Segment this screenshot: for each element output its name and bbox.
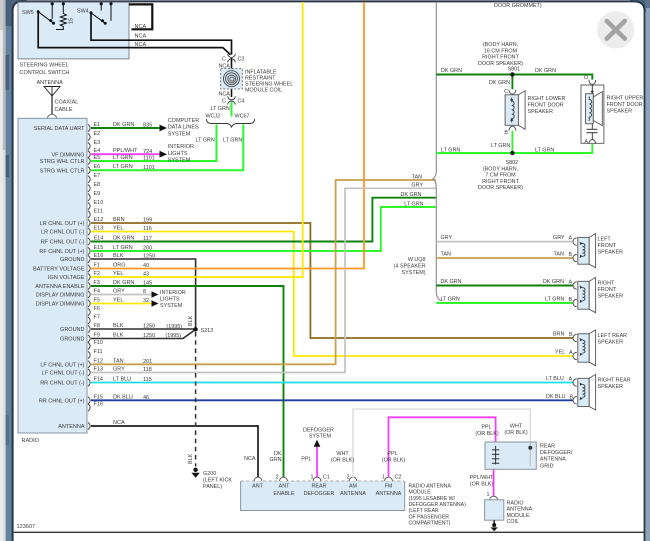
switch SW5: [22, 2, 55, 25]
radio pin E11: [88, 209, 103, 219]
svg-text:S802: S802: [506, 160, 519, 166]
radio pin F8: [60, 323, 155, 333]
svg-text:NCA: NCA: [135, 42, 147, 48]
label coaxial cable: [55, 100, 79, 114]
label YEL A left rear speaker: [555, 350, 573, 356]
svg-text:RIGHT UPPER: RIGHT UPPER: [607, 96, 644, 102]
close button: [597, 11, 634, 48]
wire LT GRN C4 to splice: [211, 102, 232, 117]
right rear speaker: [573, 374, 631, 410]
radio pin E7: [88, 173, 100, 183]
radio pin F3: [35, 280, 152, 290]
svg-text:(BODY HARN,: (BODY HARN,: [483, 42, 519, 48]
wire LT GRN WCJ2 to E5: [91, 125, 217, 162]
svg-text:S213: S213: [201, 328, 214, 334]
connector C3: [222, 54, 244, 63]
radio pin F6: [88, 306, 100, 316]
radio pin F15: [39, 394, 149, 404]
window left scrollbar blue strip: [6, 0, 13, 541]
svg-text:F13: F13: [94, 367, 103, 373]
svg-text:A: A: [569, 377, 573, 383]
svg-text:MODULE COIL: MODULE COIL: [245, 88, 282, 94]
svg-text:SPEAKER: SPEAKER: [598, 384, 624, 390]
svg-text:DK GRN: DK GRN: [543, 279, 564, 285]
svg-text:DK GRN: DK GRN: [401, 192, 422, 198]
svg-text:LT GRN: LT GRN: [491, 143, 510, 149]
left front speaker: [573, 234, 623, 268]
svg-text:STRG WHL CTLR: STRG WHL CTLR: [40, 159, 85, 165]
antenna symbol: [37, 80, 64, 115]
svg-text:(1995): (1995): [165, 333, 181, 339]
label steering wheel control switch: [20, 63, 70, 77]
radio pin E14: [41, 236, 152, 246]
svg-text:INTERIOR: INTERIOR: [160, 290, 186, 296]
radio pin F4: [36, 289, 146, 299]
svg-text:LIGHTS: LIGHTS: [160, 297, 180, 303]
svg-text:DK GRN: DK GRN: [441, 279, 462, 285]
svg-text:ANTENNA: ANTENNA: [340, 491, 366, 497]
svg-text:TAN: TAN: [554, 252, 564, 258]
svg-text:ANTENNA: ANTENNA: [58, 424, 85, 430]
svg-text:ANTENNA: ANTENNA: [37, 80, 64, 86]
svg-text:SYSTEM: SYSTEM: [168, 158, 191, 164]
svg-text:PPL: PPL: [301, 456, 311, 462]
svg-text:DEFOGGER/: DEFOGGER/: [540, 450, 573, 456]
svg-text:TAN: TAN: [412, 174, 422, 180]
wire WHT AM antenna to grid: [331, 409, 530, 478]
svg-text:LT GRN: LT GRN: [441, 297, 460, 303]
svg-text:E7: E7: [94, 173, 101, 179]
svg-text:SPEAKER: SPEAKER: [598, 249, 624, 255]
svg-text:LT BLU: LT BLU: [546, 376, 564, 382]
svg-text:WHT: WHT: [510, 424, 523, 430]
svg-text:SERIAL DATA UART: SERIAL DATA UART: [34, 126, 85, 132]
wire PPL FM antenna to grid: [382, 417, 499, 478]
wire F5 YEL 32 to interior lights: [91, 290, 186, 309]
connector C4: [222, 96, 244, 104]
svg-text:16 CM FROM: 16 CM FROM: [484, 48, 518, 54]
radio pin E3: [88, 140, 100, 150]
svg-text:PPL: PPL: [481, 425, 491, 431]
svg-text:NCA: NCA: [135, 33, 147, 39]
right upper front door speaker: [581, 75, 643, 145]
wire E1 DK GRN 835 to computer data lines: [91, 118, 199, 138]
svg-text:SYSTEM: SYSTEM: [309, 434, 332, 440]
svg-text:BLK: BLK: [113, 253, 124, 259]
svg-text:C: C: [222, 57, 226, 63]
svg-text:LT GRN: LT GRN: [196, 138, 215, 144]
svg-text:B: B: [569, 252, 573, 258]
svg-text:LR CHNL OUT (-): LR CHNL OUT (-): [41, 230, 85, 236]
svg-text:SW5: SW5: [22, 10, 34, 16]
wire F2 YEL 43 to top: [91, 2, 303, 277]
svg-text:LF CHNL OUT (+): LF CHNL OUT (+): [40, 363, 84, 369]
wire NCA C3 to coil: [219, 58, 232, 97]
radio pin E13: [41, 226, 152, 236]
rear defogger antenna grid: [485, 442, 573, 469]
radio pin F14: [40, 377, 152, 387]
svg-text:B: B: [569, 332, 573, 338]
svg-text:F5: F5: [94, 298, 100, 304]
svg-text:STRG WHL CTLR: STRG WHL CTLR: [40, 168, 85, 174]
svg-text:RADIO ANTENNA: RADIO ANTENNA: [409, 483, 452, 489]
svg-text:TAN: TAN: [441, 252, 451, 258]
radio pin E16: [60, 253, 155, 263]
module pin ANT: [252, 477, 263, 489]
radio connector box: [18, 118, 87, 433]
svg-text:PPL/WHT: PPL/WHT: [470, 475, 495, 481]
svg-text:ANT: ANT: [279, 484, 290, 490]
svg-text:LT GRN: LT GRN: [535, 148, 554, 154]
svg-text:CABLE: CABLE: [55, 107, 73, 113]
svg-text:CONTROL SWITCH: CONTROL SWITCH: [20, 70, 70, 76]
svg-text:(1995 LESABRE W/: (1995 LESABRE W/: [409, 496, 456, 502]
radio pin F16: [88, 402, 103, 412]
svg-text:RF CHNL OUT (-): RF CHNL OUT (-): [41, 240, 85, 246]
svg-text:LT GRN: LT GRN: [211, 106, 230, 112]
svg-text:E6: E6: [94, 164, 101, 170]
svg-text:F7: F7: [94, 315, 100, 321]
svg-text:1101: 1101: [143, 165, 155, 171]
svg-text:RADIO: RADIO: [507, 500, 524, 506]
svg-text:COMPUTER: COMPUTER: [168, 118, 200, 124]
svg-text:RIGHT FRONT: RIGHT FRONT: [482, 55, 519, 61]
radio pin F1: [33, 263, 149, 273]
svg-text:STEERING WHEEL: STEERING WHEEL: [20, 63, 69, 69]
svg-text:B: B: [569, 297, 573, 303]
module pin REAR DEFOGGER 1 C1: [304, 474, 335, 497]
svg-text:F11: F11: [94, 349, 103, 355]
svg-text:NCA: NCA: [135, 24, 147, 30]
svg-text:B: B: [504, 130, 508, 136]
svg-text:FRONT: FRONT: [598, 287, 617, 293]
switch SW4: [77, 2, 113, 25]
wire NCA loop top: [129, 4, 152, 30]
svg-text:DEFOGGER: DEFOGGER: [304, 491, 335, 497]
radio pin E12: [40, 217, 152, 227]
resistor 15: [56, 2, 75, 29]
radio pin F10: [88, 340, 103, 350]
wire NCA middle to C3: [91, 13, 232, 55]
svg-text:SYSTEM): SYSTEM): [402, 270, 426, 276]
svg-text:SYSTEM: SYSTEM: [160, 303, 183, 309]
splice S802 label block: [478, 160, 523, 191]
svg-text:(OR BLK): (OR BLK): [470, 481, 494, 487]
label DK GRN at ant enable: [270, 451, 282, 463]
svg-text:F6: F6: [94, 306, 100, 312]
wire LT GRN WC67 to E6: [91, 125, 243, 171]
svg-text:DK GRN: DK GRN: [441, 68, 462, 74]
svg-text:A: A: [584, 139, 588, 145]
svg-text:BLK: BLK: [188, 315, 194, 326]
module pin ANT ENABLE 2: [273, 474, 295, 497]
svg-text:DEFOGGER ANTENNA): DEFOGGER ANTENNA): [409, 502, 467, 508]
wire F8 BLK 1250 to S213: [91, 324, 194, 330]
radio pin E15: [39, 245, 152, 255]
radio pin E6: [40, 164, 155, 174]
svg-text:INTERIOR: INTERIOR: [168, 144, 194, 150]
svg-text:RIGHT REAR: RIGHT REAR: [598, 378, 631, 384]
svg-text:F10: F10: [94, 340, 103, 346]
svg-text:GROUND: GROUND: [60, 337, 84, 343]
svg-text:PPL: PPL: [387, 451, 397, 457]
svg-text:LT GRN: LT GRN: [113, 155, 133, 161]
svg-text:7 CM FROM: 7 CM FROM: [485, 173, 516, 179]
svg-text:F9: F9: [94, 333, 100, 339]
svg-text:BLK: BLK: [188, 453, 194, 464]
wire F1 ORG 40 to top: [91, 2, 364, 269]
svg-text:GRY: GRY: [441, 235, 453, 241]
radio pin E8: [88, 182, 100, 192]
radio pin F9: [60, 333, 155, 343]
svg-text:DISPLAY DIMMING: DISPLAY DIMMING: [36, 302, 85, 308]
wire NCA lower to C3: [38, 12, 230, 55]
svg-text:COAXIAL: COAXIAL: [55, 100, 79, 106]
svg-text:DK: DK: [274, 451, 282, 457]
svg-text:GRY: GRY: [411, 183, 423, 189]
svg-text:LR CHNL OUT (+): LR CHNL OUT (+): [40, 221, 85, 227]
svg-text:ANTENNA: ANTENNA: [540, 457, 566, 463]
radio pin F5: [36, 298, 149, 308]
svg-text:15: 15: [69, 18, 75, 24]
svg-text:E9: E9: [94, 191, 101, 197]
svg-text:SYSTEM: SYSTEM: [168, 131, 191, 137]
svg-text:RIGHT LOWER: RIGHT LOWER: [528, 96, 566, 102]
wire PPL/WHT grid to antenna coil: [470, 469, 495, 498]
svg-text:LT GRN: LT GRN: [441, 148, 460, 154]
svg-text:SPEAKER: SPEAKER: [607, 109, 633, 115]
svg-text:E10: E10: [94, 200, 104, 206]
svg-text:LEFT REAR: LEFT REAR: [598, 333, 628, 339]
svg-text:A: A: [569, 236, 573, 242]
svg-text:1: 1: [311, 474, 314, 480]
radio pin E9: [88, 191, 100, 201]
svg-text:REAR: REAR: [540, 444, 555, 450]
svg-text:(4 SPEAKER: (4 SPEAKER: [394, 264, 426, 270]
svg-text:LT GRN: LT GRN: [113, 164, 133, 170]
svg-text:VF DIMMING: VF DIMMING: [52, 152, 85, 158]
label LT BLU A right rear speaker: [546, 376, 573, 382]
svg-text:G200: G200: [203, 471, 216, 477]
radio pin E4: [52, 148, 153, 158]
radio pin E1: [34, 122, 153, 132]
wire E15 LT GRN 200 to harness: [91, 201, 436, 251]
left rear speaker: [573, 330, 627, 366]
svg-text:DISPLAY DIMMING: DISPLAY DIMMING: [36, 293, 85, 299]
wire ANTENNA NCA to module ANT: [91, 426, 258, 478]
svg-text:DK BLU: DK BLU: [546, 394, 566, 400]
svg-text:C2: C2: [395, 474, 402, 480]
svg-text:F8: F8: [94, 323, 100, 329]
wire E4 PPL/WHT 724 to interior lights: [91, 144, 194, 164]
svg-text:GRN: GRN: [270, 457, 282, 463]
label DK BLU B right rear speaker: [546, 394, 574, 400]
inflatable restraint steering wheel module coil: [221, 69, 243, 90]
svg-text:A: A: [569, 350, 573, 356]
module pin AM ANTENNA 2: [340, 474, 366, 497]
wire GRY to left front speaker A: [436, 235, 573, 241]
wire LT GRN to right front speaker B: [436, 297, 573, 303]
radio pin F12: [40, 358, 152, 368]
svg-text:GRID: GRID: [540, 463, 554, 469]
radio pin E10: [88, 200, 103, 210]
svg-text:REAR: REAR: [312, 484, 327, 490]
svg-text:GRY: GRY: [553, 235, 565, 241]
wire F12 TAN 201 to harness: [91, 174, 436, 364]
wire E16 BLK 1250 to S213: [91, 259, 196, 328]
svg-text:LEFT: LEFT: [598, 236, 612, 242]
wire F9 BLK 1250 to S213: [91, 330, 195, 339]
svg-text:BATTERY VOLTAGE: BATTERY VOLTAGE: [33, 267, 85, 273]
svg-text:1: 1: [382, 474, 385, 480]
svg-text:C3: C3: [238, 57, 245, 63]
harness brace: [433, 2, 442, 301]
svg-text:SPEAKER: SPEAKER: [598, 340, 624, 346]
svg-text:BLK: BLK: [113, 333, 124, 339]
svg-text:2: 2: [276, 474, 279, 480]
svg-text:(1995): (1995): [166, 324, 182, 330]
svg-text:F4: F4: [94, 289, 100, 295]
svg-text:MODULE: MODULE: [507, 513, 530, 519]
wire DK GRN to right front speaker A: [436, 279, 573, 285]
svg-text:E2: E2: [94, 131, 101, 137]
svg-text:DOOR SPEAKER): DOOR SPEAKER): [478, 185, 523, 191]
svg-text:SPEAKER: SPEAKER: [598, 294, 624, 300]
svg-text:LT GRN: LT GRN: [545, 297, 564, 303]
wire F13 GRY 118 to harness: [91, 183, 436, 373]
wire F15 DK BLU 46 to right rear speaker B: [91, 399, 573, 401]
svg-text:GRY: GRY: [113, 367, 125, 373]
svg-text:DK GRN: DK GRN: [489, 80, 510, 86]
svg-text:GRY: GRY: [113, 289, 125, 295]
wire E14 DK GRN 117 to harness: [91, 192, 436, 242]
svg-text:C1: C1: [323, 474, 330, 480]
svg-text:SW4: SW4: [77, 9, 89, 15]
svg-text:W UQ8: W UQ8: [408, 257, 426, 263]
svg-text:SPEAKER: SPEAKER: [528, 109, 554, 115]
wire F4 GRY 8 to interior lights: [91, 291, 159, 297]
svg-text:BRN: BRN: [553, 332, 564, 338]
svg-text:RIGHT FRONT: RIGHT FRONT: [482, 179, 519, 185]
svg-text:GROUND: GROUND: [60, 327, 84, 333]
svg-text:YEL: YEL: [113, 298, 123, 304]
right lower front door speaker: [504, 89, 565, 136]
svg-text:AM: AM: [349, 484, 358, 490]
svg-text:BLK: BLK: [113, 323, 124, 329]
svg-text:NCA: NCA: [244, 456, 256, 462]
window left gutter gray strip: [0, 0, 6, 541]
wire F3 DK GRN 145 to ant enable: [91, 286, 284, 478]
svg-text:F16: F16: [94, 402, 103, 408]
svg-text:1: 1: [487, 492, 490, 498]
svg-text:GROUND: GROUND: [60, 257, 84, 263]
svg-text:RIGHT: RIGHT: [598, 281, 615, 287]
svg-text:FRONT: FRONT: [598, 243, 617, 249]
svg-text:C4: C4: [238, 99, 245, 105]
wire DK GRN S801 to door speakers: [436, 68, 592, 89]
connector WCJ2 WC67 brace: [206, 114, 255, 128]
svg-text:MODULE: MODULE: [409, 490, 432, 496]
svg-text:LIGHTS: LIGHTS: [168, 151, 188, 157]
svg-text:2: 2: [347, 474, 350, 480]
svg-text:E3: E3: [94, 140, 101, 146]
radio pin F13: [42, 367, 152, 377]
label BRN B left rear speaker: [553, 332, 573, 338]
radio antenna module coil box: [485, 496, 533, 525]
svg-text:RR CHNL OUT (+): RR CHNL OUT (+): [39, 399, 85, 405]
svg-text:RADIO: RADIO: [22, 438, 40, 444]
svg-text:ENABLE: ENABLE: [273, 491, 295, 497]
svg-text:123607: 123607: [17, 524, 36, 530]
splice S801 label block: [478, 42, 523, 72]
svg-text:(OR BLK): (OR BLK): [382, 457, 406, 463]
svg-text:DEFOGGER: DEFOGGER: [303, 428, 334, 434]
svg-text:1101: 1101: [143, 156, 155, 162]
svg-text:IGN VOLTAGE: IGN VOLTAGE: [48, 275, 85, 281]
svg-text:COIL: COIL: [507, 519, 520, 525]
ground G200: [191, 468, 232, 490]
radio pin F2: [48, 271, 149, 281]
svg-text:A: A: [569, 280, 573, 286]
radio pin E2: [88, 131, 100, 141]
wire E12 BRN 199 to left rear speaker B: [91, 223, 573, 338]
wire PPL rear defogger to defogger system: [301, 428, 334, 478]
label radio antenna module location: [409, 483, 467, 526]
svg-text:WHT: WHT: [336, 451, 349, 457]
radio pin F11: [88, 349, 103, 359]
wire LT GRN S802 to door speakers: [436, 131, 592, 155]
label inflatable restraint steering wheel module coil: [245, 70, 293, 94]
svg-text:NCA: NCA: [219, 92, 231, 98]
svg-text:DATA LINES: DATA LINES: [168, 125, 199, 131]
wire BLK S213 to G200 dashed: [188, 332, 196, 467]
svg-text:WC67: WC67: [235, 114, 250, 120]
svg-text:OF PASSENGER: OF PASSENGER: [409, 514, 450, 520]
svg-text:(OR BLK): (OR BLK): [475, 431, 499, 437]
wire E13 YEL 116 to left rear speaker A: [91, 232, 573, 357]
svg-text:ANTENNA: ANTENNA: [507, 507, 533, 513]
svg-text:E16: E16: [94, 253, 104, 259]
svg-text:S801: S801: [508, 66, 521, 72]
steering wheel control switch box: [18, 2, 129, 59]
svg-text:ANTENNA ENABLE: ANTENNA ENABLE: [35, 284, 85, 290]
wire F14 LT BLU 115 to right rear speaker A: [91, 382, 573, 384]
splice S213: [188, 315, 213, 334]
svg-text:LT GRN: LT GRN: [223, 138, 242, 144]
svg-text:(LEFT KICK: (LEFT KICK: [203, 477, 232, 483]
svg-text:E5: E5: [94, 155, 101, 161]
svg-text:(OR BLK): (OR BLK): [504, 430, 528, 436]
svg-text:C: C: [222, 99, 226, 105]
svg-text:E8: E8: [94, 182, 101, 188]
svg-text:FRONT DOOR: FRONT DOOR: [607, 102, 643, 108]
svg-text:FM: FM: [385, 484, 393, 490]
svg-text:E11: E11: [94, 209, 103, 215]
svg-text:COMPARTMENT): COMPARTMENT): [409, 521, 451, 527]
svg-text:RF CHNL OUT (+): RF CHNL OUT (+): [39, 249, 84, 255]
svg-text:D: D: [584, 75, 588, 81]
svg-text:NCA: NCA: [113, 420, 125, 426]
radio pin ANT: [58, 420, 125, 430]
coax connector bump on radio box: [48, 114, 57, 118]
wire NCA coil to C4: [219, 92, 231, 98]
svg-text:LT GRN: LT GRN: [404, 201, 423, 207]
svg-text:PANEL): PANEL): [203, 484, 222, 490]
radio antenna module box: [241, 481, 405, 511]
svg-text:WCJ2: WCJ2: [206, 114, 221, 120]
svg-text:(OR BLK): (OR BLK): [331, 457, 355, 463]
svg-text:LF CHNL OUT (-): LF CHNL OUT (-): [42, 371, 85, 377]
